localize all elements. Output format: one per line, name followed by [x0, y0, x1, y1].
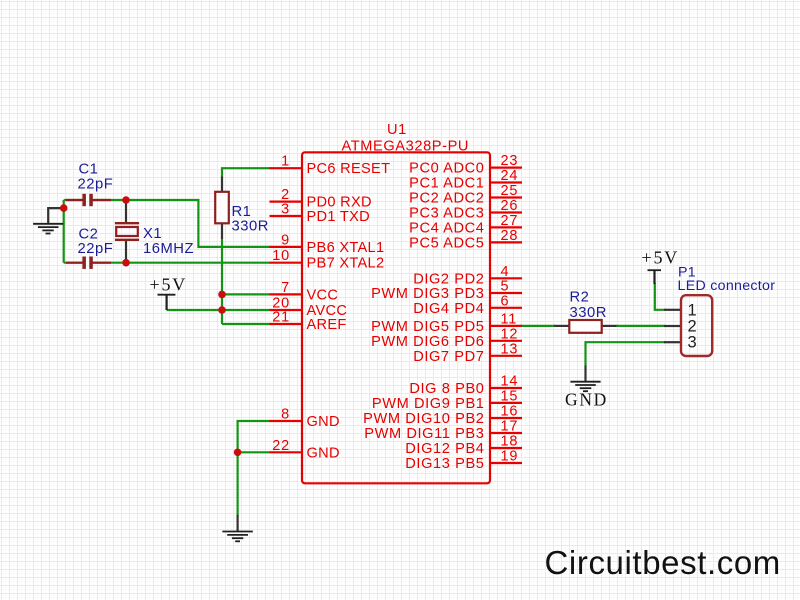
svg-text:5: 5 — [501, 279, 510, 295]
svg-text:PB7 XTAL2: PB7 XTAL2 — [307, 256, 385, 272]
wire pin11 to R2 left — [521, 325, 556, 327]
wire XTAL1 net top (C1 row) — [64, 200, 271, 247]
pin 6 stub — [490, 307, 523, 309]
svg-text:DIG7 PD7: DIG7 PD7 — [413, 349, 484, 365]
svg-text:16MHZ: 16MHZ — [143, 241, 194, 257]
svg-text:C2: C2 — [79, 227, 99, 243]
svg-text:PC2 ADC2: PC2 ADC2 — [409, 191, 484, 207]
svg-text:R2: R2 — [570, 289, 590, 305]
svg-text:U1: U1 — [387, 122, 407, 138]
svg-text:PC0 ADC0: PC0 ADC0 — [409, 161, 484, 177]
ground left symbol — [33, 224, 63, 234]
junction X1 bottom — [122, 259, 130, 267]
ground right symbol — [570, 382, 600, 392]
svg-text:GND: GND — [307, 445, 340, 461]
left pin numbers — [272, 154, 290, 454]
left pin stubs — [270, 168, 303, 452]
wire VCC pin7 line — [222, 293, 271, 295]
wire X1 top lead — [125, 200, 127, 223]
svg-text:16: 16 — [501, 404, 519, 420]
pin 23 stub — [490, 167, 523, 169]
pin 5 stub — [490, 292, 523, 294]
wire R2 right lead — [602, 325, 617, 327]
junction GND pin22 — [234, 449, 242, 457]
pin 11 stub — [490, 325, 523, 327]
left pin names — [307, 161, 391, 461]
svg-text:9: 9 — [281, 232, 290, 248]
svg-text:AREF: AREF — [307, 317, 347, 333]
pin 2 stub — [270, 201, 303, 203]
pin 18 stub — [490, 447, 523, 449]
svg-text:+5V: +5V — [642, 247, 680, 267]
svg-text:4: 4 — [501, 264, 510, 280]
pin 10 stub — [270, 262, 303, 264]
svg-text:6: 6 — [501, 293, 510, 309]
connector P1 — [681, 295, 712, 356]
wire C1-C2 left vertical — [63, 200, 65, 263]
pin 24 stub — [490, 181, 523, 183]
svg-text:22pF: 22pF — [78, 241, 114, 257]
svg-text:PWM DIG6 PD6: PWM DIG6 PD6 — [371, 334, 484, 350]
svg-text:27: 27 — [501, 213, 519, 229]
svg-text:DIG13 PB5: DIG13 PB5 — [405, 456, 484, 472]
svg-text:DIG12 PB4: DIG12 PB4 — [405, 441, 484, 457]
svg-text:24: 24 — [501, 168, 519, 184]
pin 25 stub — [490, 196, 523, 198]
svg-text:21: 21 — [272, 310, 290, 326]
wire connector pin3 to GND — [586, 342, 666, 366]
svg-text:10: 10 — [272, 248, 290, 264]
wire +5V right to connector pin1 — [655, 283, 665, 310]
svg-text:PC3 ADC3: PC3 ADC3 — [409, 206, 484, 222]
svg-text:12: 12 — [501, 326, 519, 342]
svg-text:GND: GND — [307, 414, 340, 430]
svg-text:7: 7 — [281, 280, 290, 296]
svg-text:22: 22 — [272, 438, 290, 454]
svg-text:X1: X1 — [143, 226, 162, 242]
svg-text:PC6 RESET: PC6 RESET — [307, 161, 391, 177]
svg-text:330R: 330R — [570, 305, 607, 321]
wire GND bottom stem — [237, 515, 239, 531]
svg-text:PB6 XTAL1: PB6 XTAL1 — [307, 240, 385, 256]
right pin names — [363, 161, 484, 472]
svg-text:23: 23 — [501, 153, 519, 169]
pin 15 stub — [490, 402, 523, 404]
svg-text:ATMEGA328P-PU: ATMEGA328P-PU — [342, 138, 470, 154]
svg-text:C1: C1 — [79, 162, 99, 178]
power +5V supply symbol left — [158, 295, 176, 310]
wire connector P1 pin1 stub — [664, 309, 680, 311]
svg-text:GND: GND — [565, 389, 608, 409]
svg-text:+5V: +5V — [150, 274, 188, 294]
wire R1 bottom lead — [221, 223, 223, 239]
svg-text:15: 15 — [501, 388, 519, 404]
svg-text:11: 11 — [501, 311, 518, 327]
pin 17 stub — [490, 432, 523, 434]
wire connector P1 pin3 stub — [664, 341, 680, 343]
power +5V supply symbol right — [648, 270, 662, 284]
wire GND net pin8/pin22 — [238, 421, 271, 515]
svg-text:1: 1 — [281, 154, 290, 170]
wire X1 bottom lead — [125, 240, 127, 263]
pin 28 stub — [490, 241, 523, 243]
pin 19 stub — [490, 462, 523, 464]
pin 16 stub — [490, 417, 523, 419]
right pin stubs — [490, 168, 523, 463]
junction AVCC — [218, 306, 226, 314]
svg-text:PWM DIG3 PD3: PWM DIG3 PD3 — [371, 286, 484, 302]
pin 7 stub — [270, 293, 303, 295]
wire GND right stem — [584, 366, 586, 382]
pin 12 stub — [490, 340, 523, 342]
pin 27 stub — [490, 226, 523, 228]
wire RESET net: pin1 to R1 top — [222, 168, 271, 178]
junction X1 top — [122, 196, 130, 204]
capacitor C1 — [66, 194, 111, 206]
pin 9 stub — [270, 246, 303, 248]
svg-text:19: 19 — [501, 449, 519, 465]
svg-text:25: 25 — [501, 183, 519, 199]
svg-text:DIG 8 PB0: DIG 8 PB0 — [409, 381, 484, 397]
svg-text:18: 18 — [501, 434, 519, 450]
svg-text:PWM DIG11 PB3: PWM DIG11 PB3 — [364, 426, 484, 442]
svg-text:PC1 ADC1: PC1 ADC1 — [409, 176, 484, 192]
wire R2 right to connector pin2 — [616, 325, 666, 327]
pin 22 stub — [270, 451, 303, 453]
svg-text:PWM DIG10 PB2: PWM DIG10 PB2 — [363, 411, 484, 427]
wire ground tap left — [48, 208, 64, 223]
junction VCC — [218, 291, 226, 299]
pin 26 stub — [490, 211, 523, 213]
wire connector P1 pin2 stub — [664, 325, 680, 327]
svg-text:PC4 ADC4: PC4 ADC4 — [409, 220, 484, 236]
wire R2 left lead — [554, 325, 570, 327]
pin 20 stub — [270, 309, 303, 311]
pin 1 stub — [270, 167, 303, 169]
svg-text:PWM DIG5 PD5: PWM DIG5 PD5 — [371, 319, 484, 335]
svg-text:PD1 TXD: PD1 TXD — [307, 209, 370, 225]
svg-text:R1: R1 — [232, 204, 252, 220]
crystal X1 — [115, 223, 139, 240]
svg-text:26: 26 — [501, 198, 519, 214]
wire AVCC pin20 line from +5V — [167, 309, 271, 311]
svg-text:13: 13 — [501, 341, 519, 357]
pin 3 stub — [270, 215, 303, 217]
resistor R2 — [569, 320, 601, 333]
ground bottom symbol — [222, 532, 252, 542]
pin 8 stub — [270, 420, 303, 422]
svg-text:Circuitbest.com: Circuitbest.com — [545, 544, 781, 581]
pin 14 stub — [490, 387, 523, 389]
IC U1 ATMEGA328P-PU body — [302, 152, 490, 483]
svg-text:3: 3 — [281, 202, 290, 218]
svg-text:PWM DIG9 PB1: PWM DIG9 PB1 — [372, 396, 485, 412]
junction ground tap — [60, 204, 68, 212]
resistor R1 — [215, 192, 229, 224]
right pin numbers — [501, 153, 519, 464]
svg-text:14: 14 — [501, 374, 519, 390]
pin 13 stub — [490, 355, 523, 357]
wire AREF pin21 line — [222, 323, 271, 325]
svg-text:PC5 ADC5: PC5 ADC5 — [409, 235, 484, 251]
svg-text:VCC: VCC — [307, 287, 339, 303]
capacitor C2 — [66, 257, 111, 269]
svg-text:DIG2 PD2: DIG2 PD2 — [413, 271, 484, 287]
pin 4 stub — [490, 277, 523, 279]
svg-text:330R: 330R — [232, 219, 269, 235]
wire XTAL2 net (C2 row to pin10) — [64, 262, 271, 264]
wire R1 bottom to AREF corner — [221, 239, 223, 325]
svg-text:3: 3 — [688, 334, 697, 352]
svg-text:8: 8 — [281, 407, 290, 423]
wire R1 top lead — [221, 177, 223, 193]
svg-text:LED connector: LED connector — [678, 278, 776, 294]
svg-text:28: 28 — [501, 228, 519, 244]
svg-text:22pF: 22pF — [78, 177, 114, 193]
pin 21 stub — [270, 323, 303, 325]
wire GND pin22 line — [238, 451, 271, 453]
svg-text:17: 17 — [501, 419, 519, 435]
svg-text:DIG4 PD4: DIG4 PD4 — [413, 301, 484, 317]
